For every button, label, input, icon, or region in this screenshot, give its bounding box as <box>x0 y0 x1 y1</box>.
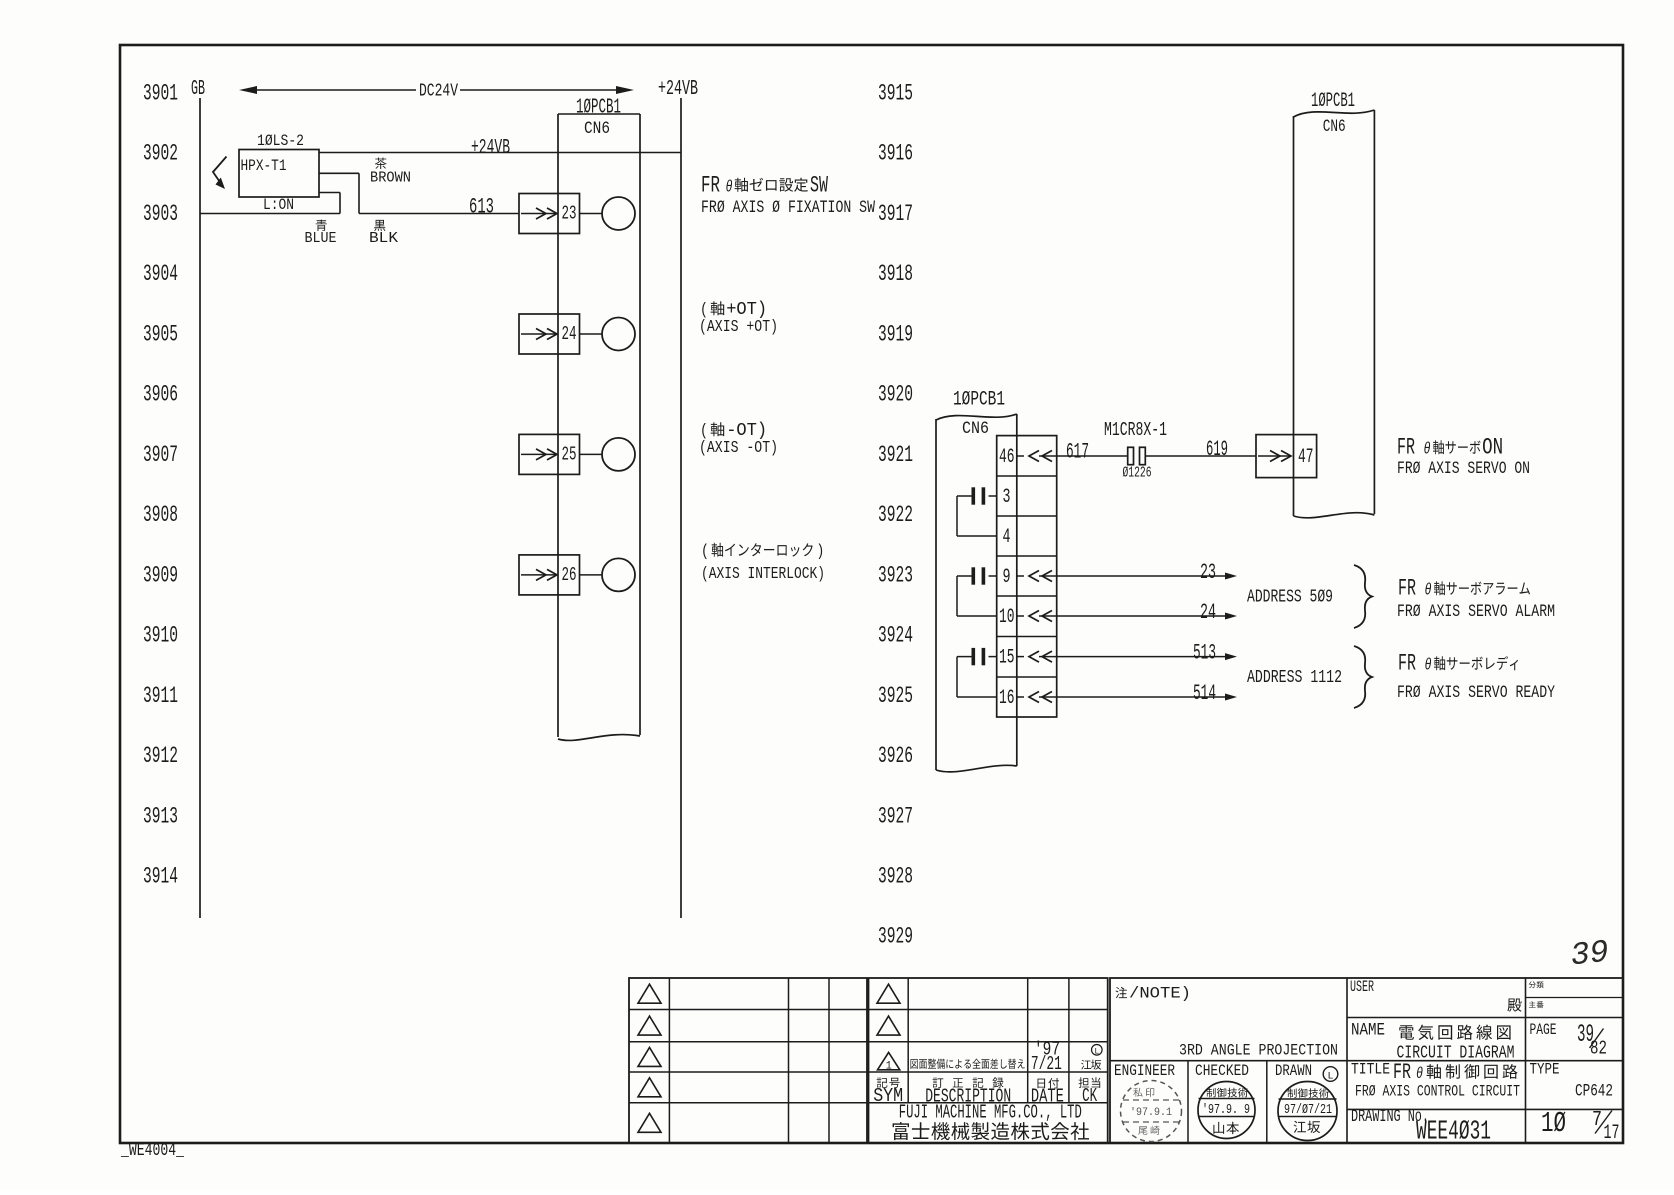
brace servo alarm group <box>1354 565 1372 628</box>
pin 24 <box>519 314 635 354</box>
wire 613 to pin 23 <box>359 195 519 220</box>
svg-text:FRØ AXIS SERVO ALARM: FRØ AXIS SERVO ALARM <box>1397 603 1555 622</box>
label FR0 AXIS 0 FIXATION SW <box>701 198 875 218</box>
svg-text:3928: 3928 <box>878 863 913 889</box>
stamp DRAWN <box>1278 1082 1337 1141</box>
svg-text:Ø1226: Ø1226 <box>1123 466 1152 482</box>
svg-text:26: 26 <box>562 564 577 586</box>
svg-text:25: 25 <box>562 444 577 466</box>
label (AXIS -OT) <box>699 439 778 458</box>
pin 15 <box>999 646 1015 669</box>
svg-text:3923: 3923 <box>878 562 913 588</box>
svg-text:HPX-T1: HPX-T1 <box>241 157 287 175</box>
pin 3 <box>1003 486 1011 509</box>
svg-text:3920: 3920 <box>878 382 913 408</box>
svg-text:513: 513 <box>1193 640 1216 665</box>
svg-text:FRØ AXIS Ø FIXATION SW: FRØ AXIS Ø FIXATION SW <box>701 198 875 218</box>
pin 10 <box>999 606 1015 629</box>
svg-text:ADDRESS 5Ø9: ADDRESS 5Ø9 <box>1247 588 1333 608</box>
net DC24V dimension arrow <box>239 82 634 102</box>
stamp column headers <box>1114 1062 1338 1083</box>
label (axis +OT) <box>700 300 767 320</box>
label NOTE <box>1116 985 1192 1003</box>
svg-text:PAGE: PAGE <box>1530 1021 1557 1039</box>
svg-text:θ: θ <box>1424 441 1431 460</box>
svg-text:3929: 3929 <box>878 924 913 950</box>
svg-text:FRØ AXIS SERVO ON: FRØ AXIS SERVO ON <box>1397 460 1530 479</box>
label BLK <box>369 220 398 247</box>
svg-text:23: 23 <box>1200 560 1216 585</box>
wire address bit 23 <box>1017 560 1237 585</box>
svg-text:(AXIS -OT): (AXIS -OT) <box>699 439 778 458</box>
actuator arrow of 10LS-2 <box>213 157 227 190</box>
svg-text:FR: FR <box>1398 576 1416 602</box>
pin 9 <box>1003 566 1011 589</box>
revision triangle L3 <box>638 1047 661 1066</box>
revision triangle L1 <box>638 984 661 1003</box>
revision table (left) <box>629 978 867 1143</box>
svg-text:-OT): -OT) <box>726 421 767 441</box>
svg-text:1ØLS-2: 1ØLS-2 <box>257 132 304 150</box>
field DRAWING No WEE4031 <box>1351 1107 1491 1148</box>
pin 23 <box>519 194 635 234</box>
svg-text:USER: USER <box>1350 978 1374 996</box>
svg-text:θ: θ <box>1425 657 1432 676</box>
svg-text:+24VB: +24VB <box>471 137 510 160</box>
svg-text:TITLE: TITLE <box>1351 1061 1390 1079</box>
label FR0 axis servo ON <box>1397 435 1503 461</box>
svg-text:L: L <box>1328 1072 1334 1083</box>
pin 25 <box>519 434 635 474</box>
node GB bus <box>191 78 205 918</box>
svg-text:3919: 3919 <box>878 321 913 347</box>
stamp CHECKED <box>1198 1082 1255 1139</box>
revision 1 entry <box>878 1039 1103 1075</box>
label FR0 AXIS SERVO ALARM <box>1397 603 1555 622</box>
svg-text:7: 7 <box>1592 1109 1602 1132</box>
wire +24VB (lead to bus) <box>319 137 681 160</box>
label (AXIS +OT) <box>699 318 778 337</box>
field NAME circuit diagram <box>1351 1021 1515 1064</box>
pin 47 <box>1256 435 1317 478</box>
svg-text:3924: 3924 <box>878 623 913 649</box>
svg-text:617: 617 <box>1066 440 1089 465</box>
svg-text:CN6: CN6 <box>1323 117 1346 137</box>
svg-text:FR: FR <box>1398 651 1416 677</box>
field USER <box>1350 978 1522 1012</box>
svg-text:9: 9 <box>1003 566 1011 589</box>
svg-text:BLUE: BLUE <box>305 231 337 247</box>
connector 10PCB1 CN6 (middle) <box>936 389 1017 772</box>
svg-text:514: 514 <box>1193 681 1216 706</box>
svg-text:47: 47 <box>1298 446 1314 469</box>
svg-text:3RD ANGLE PROJECTION: 3RD ANGLE PROJECTION <box>1179 1042 1338 1060</box>
wire address bit 24 <box>1017 600 1237 625</box>
label FR0 axis zero set SW <box>701 173 828 199</box>
svg-text:3913: 3913 <box>143 803 178 829</box>
label drawing code _WE4004_ <box>120 1141 184 1161</box>
svg-text:ON: ON <box>1482 435 1503 461</box>
svg-text:(: ( <box>701 543 709 562</box>
label FR0 AXIS SERVO ON <box>1397 460 1530 479</box>
svg-text:3903: 3903 <box>143 201 178 227</box>
svg-text:3926: 3926 <box>878 743 913 769</box>
svg-text:3914: 3914 <box>143 863 178 889</box>
svg-text:FR: FR <box>1393 1060 1411 1085</box>
revision triangle M2 <box>877 1016 900 1035</box>
svg-text:16: 16 <box>999 687 1015 710</box>
svg-text:CN6: CN6 <box>584 119 610 139</box>
field TYPE CP642 <box>1530 1061 1614 1102</box>
jumper contact pins 9-10 <box>957 567 997 616</box>
svg-text:1Ø: 1Ø <box>1541 1107 1566 1140</box>
svg-text:_WE4004_: _WE4004_ <box>120 1141 184 1161</box>
wire 3903 from GB <box>200 213 340 215</box>
label FR0 axis servo alarm <box>1398 576 1530 602</box>
svg-text:1: 1 <box>886 1061 892 1073</box>
svg-text:(AXIS +OT): (AXIS +OT) <box>699 318 778 337</box>
wire 617 <box>1057 440 1128 465</box>
svg-text:17: 17 <box>1604 1122 1620 1145</box>
connector 10PCB1 CN6 (top right) <box>1294 90 1375 518</box>
field TITLE FR0 axis control circuit <box>1351 1060 1520 1101</box>
label ADDRESS 1112 <box>1247 668 1342 688</box>
label 3RD ANGLE PROJECTION <box>1179 1042 1338 1060</box>
svg-text:1ØPCB1: 1ØPCB1 <box>953 389 1005 412</box>
svg-text:39: 39 <box>1569 934 1611 975</box>
svg-text:CHECKED: CHECKED <box>1195 1062 1249 1080</box>
svg-text:3901: 3901 <box>143 81 178 107</box>
svg-text:SW: SW <box>810 173 828 199</box>
label FR0 AXIS SERVO READY <box>1397 684 1555 703</box>
label (AXIS INTERLOCK) <box>701 565 825 584</box>
svg-text:3912: 3912 <box>143 743 178 769</box>
label (axis interlock) <box>701 543 824 562</box>
revision triangle L4 <box>638 1078 661 1097</box>
svg-text:L:ON: L:ON <box>263 196 294 214</box>
revision triangle M1 <box>877 984 900 1003</box>
svg-text:3902: 3902 <box>143 141 178 167</box>
limit switch 10LS-2 HPX-T1 <box>239 132 319 214</box>
field sheet 10 7/17 <box>1541 1107 1620 1145</box>
svg-text:L: L <box>1094 1047 1099 1056</box>
svg-text:BLK: BLK <box>369 231 398 247</box>
left line-number column 3901-3914 <box>143 81 178 890</box>
svg-text:θ: θ <box>1416 1065 1423 1083</box>
wire address bit 513 <box>1017 640 1237 665</box>
svg-text:3916: 3916 <box>878 141 913 167</box>
svg-text:3918: 3918 <box>878 261 913 287</box>
svg-text:3925: 3925 <box>878 683 913 709</box>
revision triangle L5 <box>638 1113 661 1132</box>
svg-text:DC24V: DC24V <box>419 82 458 102</box>
svg-text:GB: GB <box>191 78 205 101</box>
svg-text:(AXIS INTERLOCK): (AXIS INTERLOCK) <box>701 565 825 584</box>
svg-text:619: 619 <box>1206 437 1228 462</box>
pin 46 <box>999 446 1057 469</box>
svg-text:CK: CK <box>1082 1085 1097 1107</box>
svg-text:NAME: NAME <box>1351 1021 1385 1041</box>
svg-text:10: 10 <box>999 606 1015 629</box>
svg-text:TYPE: TYPE <box>1530 1061 1560 1079</box>
svg-text:3921: 3921 <box>878 442 913 468</box>
svg-text:FRØ AXIS SERVO READY: FRØ AXIS SERVO READY <box>1397 684 1555 703</box>
svg-text:97/Ø7/21: 97/Ø7/21 <box>1284 1103 1332 1118</box>
title block frame (right) <box>1110 978 1623 1143</box>
handwritten page number 39 <box>1569 934 1611 975</box>
svg-text:3915: 3915 <box>878 81 913 107</box>
svg-text:CIRCUIT DIAGRAM: CIRCUIT DIAGRAM <box>1397 1044 1515 1064</box>
pin column CN6 cells <box>997 436 1057 717</box>
svg-text:ENGINEER: ENGINEER <box>1114 1062 1175 1080</box>
svg-text:3904: 3904 <box>143 261 178 287</box>
svg-text:FRØ AXIS CONTROL CIRCUIT: FRØ AXIS CONTROL CIRCUIT <box>1355 1083 1520 1101</box>
svg-text:1ØPCB1: 1ØPCB1 <box>576 97 621 120</box>
company name FUJI MACHINE MFG <box>893 1102 1089 1141</box>
wire address bit 514 <box>1017 681 1237 706</box>
svg-text:DRAWN: DRAWN <box>1275 1062 1312 1080</box>
pin 4 <box>1003 526 1011 549</box>
stamp ENGINEER <box>1121 1081 1182 1142</box>
label BLUE <box>305 220 337 248</box>
svg-text:82: 82 <box>1590 1038 1607 1060</box>
svg-text:613: 613 <box>469 195 494 220</box>
svg-text:3909: 3909 <box>143 562 178 588</box>
svg-text:/NOTE): /NOTE) <box>1129 985 1191 1003</box>
svg-text:FR: FR <box>1397 435 1415 461</box>
svg-text:3905: 3905 <box>143 321 178 347</box>
relay contact M1CR8X-1 <box>1104 419 1167 482</box>
wire 619 <box>1145 437 1256 462</box>
field class/serial mini labels <box>1529 981 1544 1008</box>
svg-text:46: 46 <box>999 446 1015 469</box>
svg-text:'97.9.1: '97.9.1 <box>1130 1107 1172 1119</box>
svg-text:'97.9. 9: '97.9. 9 <box>1202 1103 1250 1118</box>
svg-text:3911: 3911 <box>143 683 178 709</box>
svg-text:θ: θ <box>726 179 733 198</box>
pin 26 <box>519 555 635 595</box>
svg-text:+OT): +OT) <box>726 300 767 320</box>
svg-text:3907: 3907 <box>143 442 178 468</box>
svg-text:FUJI MACHINE MFG.CO., LTD: FUJI MACHINE MFG.CO., LTD <box>899 1102 1082 1124</box>
field PAGE 39/82 <box>1530 1020 1608 1060</box>
svg-text:ADDRESS 1112: ADDRESS 1112 <box>1247 668 1342 688</box>
svg-text:FR: FR <box>701 173 720 199</box>
net +24VB bus <box>658 78 698 918</box>
label FR0 axis servo ready <box>1398 651 1518 677</box>
right line-number column 3915-3929 <box>878 81 913 950</box>
svg-text:+24VB: +24VB <box>658 78 698 101</box>
svg-text:24: 24 <box>562 323 577 345</box>
svg-text:3906: 3906 <box>143 382 178 408</box>
svg-text:BROWN: BROWN <box>370 171 411 187</box>
svg-text:15: 15 <box>999 646 1015 669</box>
label BROWN <box>370 158 411 187</box>
svg-text:23: 23 <box>562 203 577 225</box>
wire BLK lead <box>319 173 359 213</box>
svg-text:7/21: 7/21 <box>1031 1053 1062 1075</box>
svg-text:1ØPCB1: 1ØPCB1 <box>1311 90 1355 113</box>
pin 16 <box>999 687 1015 710</box>
svg-text:CN6: CN6 <box>962 419 989 439</box>
revision triangle L2 <box>638 1016 661 1035</box>
svg-text:3910: 3910 <box>143 623 178 649</box>
jumper contact pins 3-4 <box>957 487 997 536</box>
svg-text:3908: 3908 <box>143 502 178 528</box>
jumper contact pins 15-16 <box>957 648 997 697</box>
connector 10PCB1 CN6 (left) <box>558 97 640 741</box>
svg-text:CP642: CP642 <box>1575 1082 1613 1102</box>
wire BLUE lead <box>319 193 340 214</box>
svg-text:4: 4 <box>1003 526 1011 549</box>
svg-text:3: 3 <box>1003 486 1011 509</box>
brace servo ready group <box>1354 646 1372 708</box>
revision table header <box>873 1077 1100 1107</box>
svg-text:3922: 3922 <box>878 502 913 528</box>
svg-text:3927: 3927 <box>878 803 913 829</box>
svg-text:θ: θ <box>1425 582 1432 601</box>
label (axis -OT) <box>700 421 767 441</box>
svg-text:): ) <box>816 543 824 562</box>
label ADDRESS 509 <box>1247 588 1333 608</box>
revision table (middle) <box>869 978 1108 1143</box>
svg-text:3917: 3917 <box>878 201 913 227</box>
svg-text:WEE4Ø31: WEE4Ø31 <box>1416 1118 1491 1148</box>
svg-text:M1CR8X-1: M1CR8X-1 <box>1104 419 1167 441</box>
svg-text:24: 24 <box>1200 600 1216 625</box>
